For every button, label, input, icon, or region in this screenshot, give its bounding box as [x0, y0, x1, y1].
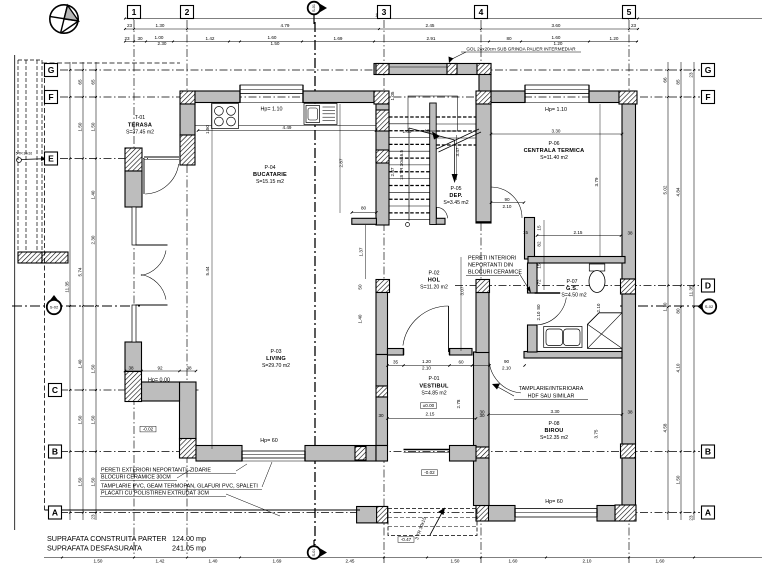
wall birou west — [474, 352, 490, 447]
section line S-02 right — [620, 305, 700, 307]
interior dims hol vest — [388, 365, 490, 367]
svg-text:1.40: 1.40 — [91, 190, 96, 199]
svg-text:3.07: 3.07 — [460, 286, 465, 295]
svg-text:2.91: 2.91 — [427, 36, 436, 41]
grid axis C — [60, 389, 200, 391]
svg-text:23: 23 — [631, 23, 637, 28]
svg-text:80: 80 — [536, 304, 541, 310]
svg-text:80: 80 — [361, 206, 367, 211]
door dep arc — [437, 207, 448, 218]
svg-text:11.35: 11.35 — [689, 285, 694, 297]
bubble axis 3 — [378, 6, 391, 19]
svg-text:2.87: 2.87 — [339, 158, 344, 167]
svg-text:35: 35 — [393, 360, 399, 365]
window living south — [242, 451, 305, 458]
svg-text:1.40: 1.40 — [358, 314, 363, 323]
svg-text:3.30: 3.30 — [551, 409, 560, 414]
svg-text:-0.47: -0.47 — [401, 537, 412, 542]
svg-text:NEPORTANTI DIN: NEPORTANTI DIN — [468, 263, 513, 269]
stair landing outline — [408, 96, 458, 131]
svg-text:15: 15 — [523, 230, 529, 235]
svg-text:S=12.35 m2: S=12.35 m2 — [540, 435, 568, 441]
svg-text:1.00: 1.00 — [403, 129, 412, 134]
svg-text:-0.02: -0.02 — [424, 470, 435, 475]
svg-text:15: 15 — [537, 263, 542, 269]
wall birou south left — [488, 506, 515, 522]
pier stair west mid2 — [376, 150, 389, 163]
svg-text:1.20: 1.20 — [610, 36, 619, 41]
svg-text:F: F — [48, 92, 53, 102]
bubble axis B left — [49, 445, 62, 458]
bubble axis G right — [702, 64, 715, 77]
svg-text:1.40: 1.40 — [78, 359, 83, 368]
svg-text:65: 65 — [91, 79, 96, 85]
svg-text:3.75: 3.75 — [594, 429, 599, 438]
svg-text:A: A — [52, 508, 58, 518]
svg-text:S=11.20 m2: S=11.20 m2 — [420, 285, 448, 291]
wall ct-gs divider — [528, 257, 625, 264]
pier living south small — [355, 447, 366, 461]
svg-text:2.45: 2.45 — [426, 23, 435, 28]
svg-text:2.10: 2.10 — [583, 559, 592, 563]
svg-text:LIVING: LIVING — [266, 356, 286, 362]
wall living west jog — [142, 382, 180, 401]
svg-text:P-08: P-08 — [549, 421, 560, 427]
wall stair south-east lip — [432, 218, 445, 224]
svg-text:F: F — [705, 92, 710, 102]
svg-text:T-01: T-01 — [135, 115, 145, 121]
wall living south right — [305, 446, 376, 462]
svg-text:S-02: S-02 — [705, 304, 714, 309]
svg-text:1.60: 1.60 — [268, 35, 277, 40]
svg-text:2.15: 2.15 — [426, 412, 435, 417]
svg-text:4.58: 4.58 — [663, 423, 668, 432]
pier kitchen north-east — [374, 91, 389, 104]
svg-text:66: 66 — [663, 77, 668, 83]
porch arrow — [414, 508, 445, 541]
level marks — [421, 403, 437, 409]
svg-text:5.02: 5.02 — [663, 185, 668, 194]
bubble axis G left — [45, 64, 58, 77]
svg-text:2.10: 2.10 — [422, 366, 431, 371]
svg-text:23: 23 — [91, 514, 96, 520]
grid axis 1 — [133, 20, 135, 556]
svg-text:30: 30 — [479, 410, 485, 415]
svg-text:1.50: 1.50 — [451, 559, 460, 563]
door birou arc — [489, 358, 521, 393]
wall north F-row left — [491, 91, 525, 103]
svg-text:5: 5 — [627, 7, 632, 17]
pier terasa col E bottom — [125, 171, 142, 207]
bubble axis C left — [49, 384, 62, 397]
svg-text:TERASA: TERASA — [128, 123, 152, 129]
grid axis E — [60, 158, 148, 160]
wall hol west — [376, 293, 388, 355]
svg-text:80: 80 — [506, 36, 512, 41]
wall east lower — [622, 458, 636, 505]
svg-text:P-03: P-03 — [271, 349, 282, 355]
svg-text:2.10: 2.10 — [503, 204, 512, 209]
interior dims dep door — [491, 202, 524, 204]
svg-text:SUPRAFATA CONSTRUITA PARTER: SUPRAFATA CONSTRUITA PARTER — [47, 534, 167, 543]
compass north arrow — [50, 5, 79, 34]
svg-text:DEP.: DEP. — [449, 193, 462, 199]
svg-text:BUCATARIE: BUCATARIE — [253, 172, 287, 178]
svg-text:1.69: 1.69 — [334, 36, 343, 41]
wall kitchen west upper — [180, 104, 195, 135]
svg-text:5.74: 5.74 — [78, 267, 83, 276]
pier living south-west — [180, 439, 197, 459]
wall kitchen west pier lower — [180, 135, 195, 165]
dimension chain top row3 — [125, 41, 638, 43]
svg-text:Hp= 1.10: Hp= 1.10 — [260, 107, 282, 113]
pier vestibul west — [376, 386, 388, 397]
shower cabin — [588, 313, 623, 349]
dimension chain right col3 — [693, 62, 695, 520]
svg-text:P-01: P-01 — [429, 376, 440, 382]
window centrala north — [525, 85, 589, 94]
washbasin double — [544, 327, 582, 348]
dimension chain right col1 — [667, 62, 669, 520]
svg-text:23: 23 — [127, 23, 133, 28]
svg-text:1.00: 1.00 — [155, 35, 164, 40]
svg-text:2.10: 2.10 — [502, 366, 511, 371]
pier living west col C hatch — [125, 372, 142, 402]
wall gs west lower — [528, 325, 538, 352]
pier birou south-west — [476, 506, 489, 522]
interior dims birou — [489, 414, 623, 416]
svg-text:1.50: 1.50 — [91, 477, 96, 486]
svg-text:BIROU: BIROU — [544, 428, 563, 434]
svg-text:E: E — [48, 154, 54, 164]
window kitchen jambs — [239, 85, 241, 103]
svg-text:30: 30 — [378, 413, 384, 418]
dimension chain bottom — [44, 557, 762, 559]
window living west lower — [132, 305, 136, 342]
svg-text:80: 80 — [676, 308, 681, 314]
french doors living west — [136, 245, 168, 305]
wall birou south right — [597, 506, 615, 522]
svg-text:85: 85 — [676, 79, 681, 85]
svg-text:Hp= 0.00: Hp= 0.00 — [148, 378, 170, 384]
svg-text:BLOCURI CERAMICE 30CM: BLOCURI CERAMICE 30CM — [101, 475, 171, 481]
bubble axis D right — [702, 279, 715, 292]
terasa edge line south — [44, 63, 46, 510]
svg-text:3.60: 3.60 — [552, 23, 561, 28]
svg-text:241.05 mp: 241.05 mp — [172, 544, 206, 553]
svg-text:S-01: S-01 — [312, 4, 316, 12]
wall stair east cap — [476, 221, 491, 223]
svg-text:2.10: 2.10 — [536, 311, 541, 320]
section line S-02 left — [12, 305, 140, 307]
svg-text:Hp= 60: Hp= 60 — [260, 438, 278, 444]
svg-text:1.50: 1.50 — [91, 415, 96, 424]
wall vestibul west lower — [376, 397, 388, 446]
svg-text:4.10: 4.10 — [676, 363, 681, 372]
wall vestibul north right — [450, 349, 473, 356]
pier east row B — [621, 444, 636, 458]
wall north F-row right — [589, 91, 619, 103]
svg-text:B: B — [705, 447, 711, 457]
stair break line — [437, 129, 480, 149]
svg-text:S=4.50 m2: S=4.50 m2 — [561, 293, 586, 299]
svg-text:1.69: 1.69 — [273, 559, 282, 563]
svg-text:50: 50 — [358, 284, 363, 290]
svg-text:2.15: 2.15 — [574, 230, 583, 235]
wall vestibul south-east — [450, 446, 477, 462]
svg-text:1.42: 1.42 — [206, 36, 215, 41]
wall stairwell north mid — [389, 66, 447, 68]
grid axis 2 — [186, 20, 188, 556]
svg-text:P-05: P-05 — [451, 186, 462, 192]
bubble axis F right — [702, 91, 715, 104]
bubble axis A right — [702, 506, 715, 519]
svg-text:90: 90 — [504, 359, 510, 364]
kitchen counter edge — [195, 125, 376, 127]
svg-text:S=15.15 m2: S=15.15 m2 — [256, 179, 284, 185]
bubble axis 1 — [128, 6, 141, 19]
svg-text:S=3.45 m2: S=3.45 m2 — [443, 200, 468, 206]
svg-text:1.50: 1.50 — [94, 559, 103, 563]
door gs leaf and arc — [535, 293, 567, 325]
svg-text:1.20: 1.20 — [422, 359, 431, 364]
grid axis B — [60, 451, 700, 453]
dimension chain right col2 — [680, 62, 682, 520]
pier hol east freestanding — [476, 280, 490, 293]
pier living west col C top — [125, 342, 142, 372]
svg-text:G: G — [48, 65, 55, 75]
wall gs west upper — [528, 263, 538, 293]
svg-text:1.50: 1.50 — [91, 122, 96, 131]
window centrala jambs — [524, 85, 526, 103]
wall vestibul north left — [388, 349, 404, 356]
door ct arc — [491, 187, 522, 218]
svg-text:D: D — [705, 281, 711, 291]
svg-text:2: 2 — [185, 7, 190, 17]
bubble axis B right — [702, 445, 715, 458]
svg-text:S=29.70 m2: S=29.70 m2 — [262, 363, 290, 369]
window living jambs — [241, 451, 243, 461]
wall east middle — [622, 294, 636, 444]
pier hol west freestanding — [376, 280, 390, 293]
cooktop stove — [212, 104, 239, 129]
door terasa-kitchen — [144, 157, 179, 194]
svg-text:1.50: 1.50 — [676, 475, 681, 484]
pier stair east top — [476, 91, 491, 104]
dimension chain left col1 — [69, 62, 71, 520]
grid axis D — [455, 285, 700, 287]
stair marker TR — [16, 152, 47, 163]
svg-text:90: 90 — [504, 197, 510, 202]
svg-text:2.30: 2.30 — [158, 41, 167, 46]
interior dims gs — [537, 235, 621, 237]
svg-text:P-04: P-04 — [265, 165, 276, 171]
interior dims ct — [491, 133, 622, 135]
bubble axis F left — [45, 91, 58, 104]
svg-text:4.49: 4.49 — [283, 125, 292, 130]
svg-text:S-02: S-02 — [50, 304, 59, 309]
svg-text:23: 23 — [124, 36, 130, 41]
svg-text:BLOCURI CERAMICE: BLOCURI CERAMICE — [468, 270, 522, 276]
wall hol east (gs side) — [476, 293, 489, 353]
svg-text:PERETI INTERIORI: PERETI INTERIORI — [468, 256, 516, 262]
wall stair east — [476, 100, 491, 223]
svg-text:1.37: 1.37 — [359, 247, 364, 256]
bubble axis 2 — [181, 6, 194, 19]
svg-text:P-02: P-02 — [429, 271, 440, 277]
wc toilet — [589, 264, 605, 293]
svg-text:1.60: 1.60 — [656, 559, 665, 563]
svg-text:3.47: 3.47 — [455, 147, 460, 156]
dimension chain left col3 — [95, 62, 97, 520]
interior dim ticks — [197, 129, 199, 131]
wall kitchen north left — [195, 91, 240, 103]
svg-text:1.50: 1.50 — [78, 415, 83, 424]
svg-text:1.05: 1.05 — [390, 91, 395, 100]
pier east row D — [621, 279, 636, 294]
svg-text:HDF SAU SIMILAR: HDF SAU SIMILAR — [528, 394, 575, 400]
svg-text:38: 38 — [186, 366, 192, 371]
bubble section S-02 right — [698, 300, 706, 313]
wall birou west lower — [474, 458, 490, 506]
wall living south left — [196, 446, 242, 462]
svg-text:S-01: S-01 — [312, 548, 316, 556]
svg-text:4: 4 — [479, 7, 484, 17]
svg-text:5.44: 5.44 — [205, 266, 210, 275]
svg-text:1.60: 1.60 — [509, 559, 518, 563]
door vestibul arc — [403, 306, 449, 352]
svg-text:5 TR 30x16: 5 TR 30x16 — [16, 152, 33, 156]
svg-text:S=4.85 m2: S=4.85 m2 — [421, 391, 446, 397]
grid axis G — [60, 69, 700, 71]
svg-text:2.47: 2.47 — [390, 167, 395, 176]
wall step G-F corner — [479, 75, 491, 92]
svg-text:38: 38 — [627, 231, 633, 236]
svg-text:A: A — [705, 508, 711, 518]
svg-text:3.30: 3.30 — [552, 129, 561, 134]
pier terasa col E top — [125, 148, 142, 171]
svg-text:1.50: 1.50 — [78, 122, 83, 131]
bubble axis A left — [49, 506, 62, 519]
wall ct west — [525, 218, 535, 260]
svg-text:1.30: 1.30 — [156, 23, 165, 28]
svg-text:1.50: 1.50 — [91, 364, 96, 373]
svg-text:B: B — [52, 447, 58, 457]
stair treads right flight — [437, 117, 477, 145]
svg-text:P-06: P-06 — [549, 141, 560, 147]
window birou south — [515, 509, 597, 518]
dimension chain left col2 — [82, 62, 84, 520]
svg-text:2.30: 2.30 — [91, 235, 96, 244]
svg-text:3.79: 3.79 — [594, 177, 599, 186]
svg-text:18 TR 30x16.5: 18 TR 30x16.5 — [399, 150, 404, 180]
svg-text:23: 23 — [689, 72, 694, 78]
stair stringer wall — [430, 103, 437, 225]
svg-text:1.50: 1.50 — [271, 41, 280, 46]
pier north-east corner — [619, 91, 637, 104]
window living west upper — [132, 207, 136, 245]
terasa edge dashed top — [42, 62, 180, 64]
svg-text:4.84: 4.84 — [676, 187, 681, 196]
svg-text:VESTIBUL: VESTIBUL — [419, 384, 449, 390]
svg-text:PLACATI CU POLISTIREN EXTRUDAT: PLACATI CU POLISTIREN EXTRUDAT 3CM — [101, 491, 209, 497]
bubble axis E left — [45, 152, 58, 165]
grid axis 3 — [383, 20, 385, 563]
wall stairwell north — [374, 64, 491, 75]
svg-text:Hp= 1.10: Hp= 1.10 — [545, 107, 567, 113]
svg-text:11.35: 11.35 — [65, 281, 70, 293]
window kitchen north — [240, 85, 303, 94]
svg-text:4.79: 4.79 — [281, 23, 290, 28]
svg-text:S=37.45 m2: S=37.45 m2 — [126, 130, 154, 136]
wall stair west — [376, 104, 389, 225]
wall vestibul west — [376, 355, 388, 387]
window birou jambs — [514, 509, 516, 518]
svg-text:23: 23 — [689, 515, 694, 521]
svg-text:TAMPLARIE/INTERIOARA: TAMPLARIE/INTERIOARA — [519, 386, 584, 392]
bubble section S-01 top — [316, 2, 327, 15]
wall hol-birou divider — [524, 352, 622, 359]
wall kitchen south lip — [352, 218, 377, 224]
svg-text:15: 15 — [537, 225, 542, 231]
grid axis 5 — [628, 20, 630, 563]
svg-text:1.20: 1.20 — [554, 41, 563, 46]
svg-text:92: 92 — [157, 366, 163, 371]
svg-text:G.S.: G.S. — [566, 286, 578, 292]
bubble axis 4 — [475, 6, 488, 19]
wall vestibul south-west — [376, 446, 388, 462]
svg-text:G: G — [705, 65, 712, 75]
svg-text:1.50: 1.50 — [205, 125, 210, 134]
svg-text:1.50: 1.50 — [78, 477, 83, 486]
dimension chain top overall 12.80 — [125, 18, 762, 20]
svg-text:SUPRAFATA DESFASURATA: SUPRAFATA DESFASURATA — [47, 544, 142, 553]
svg-text:38: 38 — [128, 366, 134, 371]
pier stairwell north-mid — [447, 64, 457, 75]
section line S-01 vertical — [314, 22, 316, 545]
svg-text:3: 3 — [382, 7, 387, 17]
door entrance threshold — [404, 449, 450, 451]
wall living south-west vertical — [180, 382, 197, 439]
grid axis A — [60, 512, 700, 514]
svg-text:P-07: P-07 — [567, 279, 578, 285]
wall east upper — [622, 104, 636, 279]
svg-text:72: 72 — [537, 279, 542, 285]
svg-text:2.78: 2.78 — [456, 399, 461, 408]
terasa pergola strip — [15, 55, 68, 530]
bubble section S-01 bottom — [316, 546, 327, 559]
svg-text:C: C — [52, 385, 58, 395]
stair walking line with arrows — [406, 128, 458, 227]
kitchen sink — [304, 104, 337, 125]
interior dims kitchen — [198, 130, 376, 132]
svg-text:15: 15 — [424, 129, 430, 134]
svg-text:65: 65 — [78, 79, 83, 85]
bubble axis 5 — [623, 6, 636, 19]
svg-text:1.42: 1.42 — [156, 559, 165, 563]
pier stairwell north-east — [477, 64, 491, 75]
pier south-east corner — [615, 505, 636, 521]
svg-text:1: 1 — [132, 7, 137, 17]
svg-text:60: 60 — [458, 360, 464, 365]
pier stair west mid1 — [376, 110, 389, 131]
wall kitchen north right — [303, 91, 374, 103]
bubble section S-02 left — [48, 295, 61, 304]
svg-text:±0.00: ±0.00 — [423, 403, 435, 408]
svg-text:PERETI EXTERIORI NEPORTANTI: Z: PERETI EXTERIORI NEPORTANTI: ZIDARIE — [101, 468, 211, 474]
svg-text:2.10: 2.10 — [596, 303, 601, 312]
svg-text:S=11.40 m2: S=11.40 m2 — [540, 155, 568, 161]
